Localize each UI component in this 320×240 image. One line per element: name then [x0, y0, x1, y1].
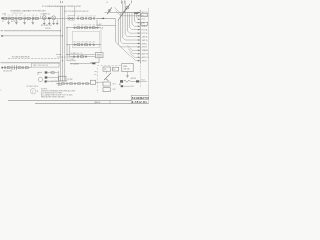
arrow on wire [101, 18, 104, 20]
junction dots mid bus [66, 54, 67, 55]
ground [56, 23, 59, 24]
svg-text:R2 C9 R3 C10: R2 C9 R3 C10 [41, 25, 51, 27]
motor B1 [38, 77, 42, 81]
wire bus feed [115, 26, 117, 42]
svg-text:C15 R9: C15 R9 [45, 28, 51, 30]
arrowhead row 9 [138, 39, 140, 41]
wire M1 stub [126, 72, 128, 76]
capacitor C22 [82, 26, 83, 29]
svg-text:RCV B: RCV B [142, 33, 149, 35]
arrowhead row 2 [138, 15, 140, 17]
wire tap label2 [67, 56, 78, 58]
wire mid bus 5 [68, 45, 70, 57]
wire mid signal path [61, 17, 106, 19]
capacitor C6 [24, 17, 25, 20]
inductor L7 [27, 17, 30, 19]
svg-text:C13: C13 [89, 16, 92, 18]
capacitor C51 [78, 55, 79, 58]
svg-text:J3: J3 [102, 28, 104, 30]
svg-text:SHLD: SHLD [142, 61, 148, 63]
inductor L45 [18, 67, 21, 69]
wire S1 common [58, 71, 60, 82]
wire bend down [115, 19, 117, 26]
svg-text:C12: C12 [85, 16, 88, 18]
wire ground stub [56, 20, 58, 23]
title block top line [8, 99, 131, 101]
ground [48, 23, 51, 24]
wire relay coil feed [74, 7, 76, 17]
arrowhead row 12 [138, 50, 140, 52]
inductor L11 [81, 18, 84, 20]
connector P2 circle [126, 6, 129, 9]
arrowhead row 5 [138, 25, 140, 27]
svg-text:L24: L24 [88, 25, 91, 27]
svg-text:28V B: 28V B [142, 47, 148, 49]
ground [23, 23, 26, 24]
title block tick 2 [109, 100, 111, 103]
svg-text:GND 1: GND 1 [142, 26, 148, 28]
capacitor C8 [32, 17, 33, 20]
shield enclosure box [72, 31, 99, 48]
svg-text:P4-2: P4-2 [131, 86, 134, 88]
svg-text:C3 C5 C7: C3 C5 C7 [11, 21, 18, 23]
component box K3 [59, 76, 66, 81]
wire stub Q1 [40, 16, 42, 19]
wire bus line 5 [126, 13, 128, 31]
connector row box 1 [141, 13, 148, 16]
inductor L21 [77, 27, 80, 29]
svg-text:C1: C1 [2, 21, 4, 23]
wire tap label1 [67, 54, 95, 56]
svg-text:TB1 1 2 3 4 5 6 7 8 9: TB1 1 2 3 4 5 6 7 8 9 [33, 65, 48, 67]
svg-text:28V A: 28V A [142, 42, 148, 45]
resistor R31 [62, 83, 65, 85]
svg-text:L9: L9 [36, 15, 38, 17]
arrowhead row 4 [138, 22, 140, 24]
svg-text:C31 C32 C33: C31 C32 C33 [3, 71, 12, 73]
connector P2 arm [122, 8, 127, 15]
svg-text:SCHEMATIC DIAGRAM OF FILTER UN: SCHEMATIC DIAGRAM OF FILTER UNIT [11, 9, 47, 12]
svg-text:K3 TB2: K3 TB2 [68, 79, 73, 81]
wire S1b [47, 77, 58, 79]
wire bus line 2 [133, 13, 135, 20]
relay contact b0 [74, 44, 76, 46]
arrowhead row 6 [138, 29, 140, 31]
connector P1 circle [108, 10, 110, 12]
svg-text:L22: L22 [81, 25, 84, 27]
label plate lower mid [92, 63, 95, 65]
wire tap row 12 [127, 45, 140, 50]
inductor L47 [25, 67, 28, 69]
terminal strip box [32, 63, 60, 67]
title box top [131, 94, 148, 96]
wire K2 to module [98, 58, 100, 63]
inductor L41 [7, 67, 10, 69]
capacitor C40 [5, 66, 6, 69]
wire bus line 9 [117, 20, 119, 45]
wire tap row 9 [123, 38, 140, 40]
wire bus line 8 [120, 13, 122, 41]
junction dot rail B [62, 35, 63, 36]
inductor winding [124, 80, 130, 82]
wire ground stub [53, 20, 55, 23]
box M1 [122, 63, 133, 71]
wire ground stub [48, 20, 50, 23]
wire dashed boundary [140, 63, 142, 88]
marks left of module [94, 72, 96, 75]
wire tap row 10 [121, 41, 141, 43]
ground [15, 23, 18, 24]
svg-text:L3: L3 [12, 15, 14, 17]
wire mid bus 2 [62, 6, 64, 81]
switch S1 bracket [38, 72, 42, 75]
svg-text:C10: C10 [77, 16, 80, 18]
wire mid bus 4 [66, 27, 68, 61]
wire to K2 [70, 56, 95, 58]
wire lower link [97, 25, 116, 27]
svg-text:VR2: VR2 [112, 89, 115, 91]
box PS1 [103, 67, 111, 71]
svg-text:C33: C33 [85, 42, 88, 44]
bus top tick marks [122, 0, 132, 3]
border bottom line [35, 103, 149, 105]
wire tap chain2 [67, 27, 73, 29]
wire CR1 out [139, 80, 147, 82]
junction dot chain2 tap [66, 27, 67, 28]
wire ground stub [8, 20, 10, 23]
rail A start tick [1, 30, 3, 32]
wire tap row 4 [134, 21, 140, 23]
svg-text:C35: C35 [92, 42, 95, 44]
wire bus line 6 [124, 1, 126, 35]
capacitor C66 [82, 82, 85, 84]
wire tap row 8 [125, 34, 140, 36]
box Z2 [113, 67, 119, 71]
svg-text:VR1: VR1 [112, 83, 115, 85]
svg-text:DC VOLTAGES MEASURED AT PINS W: DC VOLTAGES MEASURED AT PINS WITH VTVM [42, 5, 81, 8]
capacitor C60 [58, 82, 61, 84]
wire ground stub [24, 20, 26, 23]
wire rail B [2, 35, 63, 37]
inductor L9 [35, 17, 38, 19]
revision balloon [31, 89, 36, 94]
diagonal feed [116, 42, 131, 56]
wire tap row 13 [128, 49, 140, 54]
transformer T2 bar [11, 65, 13, 69]
capacitor C2 [8, 17, 9, 20]
svg-text:C4: C4 [15, 15, 17, 17]
rectifier CR1 [136, 80, 139, 82]
svg-text:C8: C8 [32, 15, 34, 17]
svg-text:SCHEMATIC: SCHEMATIC [132, 97, 150, 100]
wire tap label3 [67, 60, 76, 62]
svg-text:R11: R11 [99, 24, 102, 26]
capacitor C4 [16, 17, 17, 20]
wire ground stub [32, 20, 34, 23]
ground bottom cluster [119, 83, 121, 86]
arrowhead row 15 [138, 60, 140, 62]
inductor L33 [85, 44, 88, 46]
inductor L23 [85, 27, 88, 29]
wire mid bus 3 [64, 6, 66, 81]
wire tap row 6 [130, 27, 141, 29]
wire C60 link [96, 81, 103, 83]
relay contact 6 [97, 27, 99, 29]
inductor L5 [19, 17, 22, 19]
arrowhead row 13 [138, 53, 140, 55]
svg-text:C2: C2 [8, 15, 10, 17]
wire S1c [47, 81, 59, 83]
inductor L13 [89, 18, 92, 20]
mid bus top labels [60, 1, 62, 3]
wire bus line 3 [131, 13, 133, 24]
arrowhead row 14 [138, 56, 140, 58]
svg-text:L5: L5 [20, 15, 22, 17]
svg-text:AUD HI: AUD HI [142, 53, 149, 56]
capacitor C32 [82, 43, 83, 46]
wire feed top row [105, 12, 141, 14]
wire S1a [47, 72, 58, 74]
svg-text:XMT A: XMT A [142, 35, 148, 38]
arrowhead row 1 [138, 12, 140, 14]
svg-text:C14: C14 [93, 16, 96, 18]
title block divider [130, 95, 132, 103]
svg-text:P4-1: P4-1 [142, 80, 145, 82]
connector row box 2 [141, 22, 148, 25]
ground [43, 23, 46, 24]
svg-text:C32: C32 [81, 42, 84, 44]
title block tick [94, 100, 96, 103]
arrowhead row 7 [138, 32, 140, 34]
wire T2 out [130, 80, 136, 82]
contact c3 [85, 56, 87, 58]
inductor L3 [11, 17, 14, 19]
wire tap row 11 [118, 45, 140, 47]
svg-text:L20: L20 [73, 25, 76, 27]
svg-text:Z1: Z1 [113, 69, 115, 71]
connector P2 symbol [118, 4, 130, 21]
svg-text:P4 1 2 C61 R31 C62 R32 C63: P4 1 2 C61 R31 C62 R32 C63 [46, 80, 68, 82]
arrowhead row 8 [138, 36, 140, 38]
wire stub down [96, 20, 98, 26]
wire bottom-left chain [2, 67, 32, 69]
relay K1 contact b [72, 18, 74, 20]
svg-text:L1 C2 L2 C3 L3: L1 C2 L2 C3 L3 [12, 13, 23, 15]
ground [7, 23, 10, 24]
box C60 [90, 80, 95, 84]
capacitor C64 [74, 82, 77, 84]
contact S1a [45, 71, 48, 73]
capacitor C34 [89, 43, 90, 46]
wire chain3 [73, 44, 101, 46]
wire link [90, 62, 99, 64]
wire lower mid [70, 63, 92, 65]
transformer T2 core [120, 80, 123, 83]
svg-text:L26: L26 [96, 25, 99, 27]
transistor Q1 [42, 16, 46, 20]
relay contact b5 [93, 44, 95, 46]
svg-text:C11: C11 [81, 16, 84, 18]
svg-text:L7: L7 [28, 15, 30, 17]
svg-text:C34: C34 [88, 42, 91, 44]
wire dashed rail [8, 58, 59, 60]
wire bus line 7 [122, 1, 124, 38]
wire tap chain3 [67, 44, 73, 46]
wire tap row 15 [131, 56, 141, 61]
svg-text:L23: L23 [85, 25, 88, 27]
ground [32, 23, 35, 24]
svg-text:C30: C30 [73, 42, 76, 44]
capacitor C14 [94, 17, 95, 19]
wire bus line 4 [129, 13, 131, 27]
relay K2 box [95, 53, 103, 58]
relay K2 coil marks [97, 54, 102, 56]
resistor R33 [70, 83, 73, 85]
wire rail A [4, 30, 60, 32]
contact S1b [45, 76, 48, 78]
wire top signal path [2, 17, 61, 19]
tick right of balloon [37, 90, 39, 92]
svg-text:A 401: A 401 [96, 101, 101, 104]
resistor R1 [48, 17, 51, 19]
wire J3 down to K2 [100, 28, 102, 53]
wire bus line 1 [136, 13, 138, 17]
svg-text:L1: L1 [4, 15, 6, 17]
svg-text:XMT B: XMT B [142, 40, 148, 42]
svg-text:NOTE: NOTE [58, 85, 62, 87]
svg-text:C21 C22 C23 C24 C25 C26 C27: C21 C22 C23 C24 C25 C26 C27 [64, 11, 89, 13]
inductor L1 [3, 17, 6, 19]
svg-text:RCV A: RCV A [142, 28, 148, 31]
wire to J2 [97, 17, 116, 19]
inductor L31 [77, 44, 80, 46]
wire tap left b [57, 56, 63, 58]
wire rail C [1, 62, 61, 64]
connector J1 pin [1, 17, 3, 19]
connector pin rail B [1, 35, 2, 37]
svg-text:AUD LO: AUD LO [142, 56, 150, 59]
transistor Q2 [52, 16, 56, 20]
wire tap row 5 [132, 24, 140, 26]
junction dot chain3 tap [66, 44, 67, 45]
wire tap row 14 [129, 52, 140, 57]
capacitor C12 [86, 17, 87, 19]
svg-text:E-5512-D1: E-5512-D1 [132, 102, 147, 104]
transformer T4 bar [15, 65, 17, 69]
border right line [148, 8, 150, 104]
arrowhead row 3 [138, 19, 140, 21]
capacitor C62 [66, 82, 69, 84]
svg-text:OSC 1A: OSC 1A [123, 68, 130, 71]
capacitor C10 [78, 17, 79, 19]
wire ground stub [15, 20, 17, 23]
box REG2 [103, 88, 110, 92]
relay K1 box [68, 16, 74, 21]
svg-text:+28V DC: +28V DC [130, 78, 137, 80]
connector rail vertical [139, 10, 141, 63]
svg-text:L25: L25 [92, 25, 95, 27]
capacitor C46 [23, 66, 24, 69]
wire PS1 stub [106, 71, 108, 73]
arrowhead row 10 [138, 43, 140, 45]
connector pin P3 [1, 67, 3, 69]
svg-text:K2 R21 C51: K2 R21 C51 [74, 53, 83, 55]
svg-text:L21: L21 [77, 25, 80, 27]
label plate row1 [134, 12, 138, 14]
ground M1 [126, 76, 129, 77]
wire tap row 7 [127, 31, 140, 33]
svg-text:PARTIAL REF DESIG SHOWN: PARTIAL REF DESIG SHOWN [41, 95, 65, 98]
capacitor C70 [121, 85, 123, 87]
wire ground stub [43, 20, 45, 23]
resistor R35 [78, 83, 81, 85]
wire mid bus 1 [59, 6, 61, 81]
svg-text:SPARE: SPARE [142, 49, 149, 52]
transformer T3 bar [13, 65, 15, 69]
wire tap row 1 [115, 7, 141, 12]
junction dot rail A [60, 30, 61, 31]
module boundary dashed box [97, 66, 120, 93]
contact c0 [73, 56, 75, 58]
resistor R15 [51, 72, 54, 74]
wire tap left a [56, 54, 60, 56]
wire tap row 2 [116, 11, 141, 16]
wire tap row 3 [137, 17, 141, 19]
wire C70 out [123, 85, 130, 87]
wire chain2 [73, 27, 101, 29]
title box mid [131, 99, 148, 101]
relay K1 contact a [69, 18, 71, 20]
resistor R22 [81, 56, 84, 58]
svg-text:C6: C6 [24, 15, 26, 17]
capacitor C24 [89, 26, 90, 29]
svg-text:XTAL: XTAL [123, 65, 127, 68]
ground [52, 23, 55, 24]
connector P1 symbol [107, 7, 112, 14]
contact S1c [45, 81, 47, 83]
svg-text:C31: C31 [77, 42, 80, 44]
svg-text:TO PL: TO PL [70, 59, 74, 61]
resistor R37 [86, 83, 89, 85]
arrowhead row 11 [138, 46, 140, 48]
wire note chain [56, 83, 90, 85]
transistor Q5 [104, 73, 111, 81]
box REG1 [103, 82, 110, 86]
inductor L25 [92, 27, 95, 29]
relay contact 0 [74, 27, 76, 29]
